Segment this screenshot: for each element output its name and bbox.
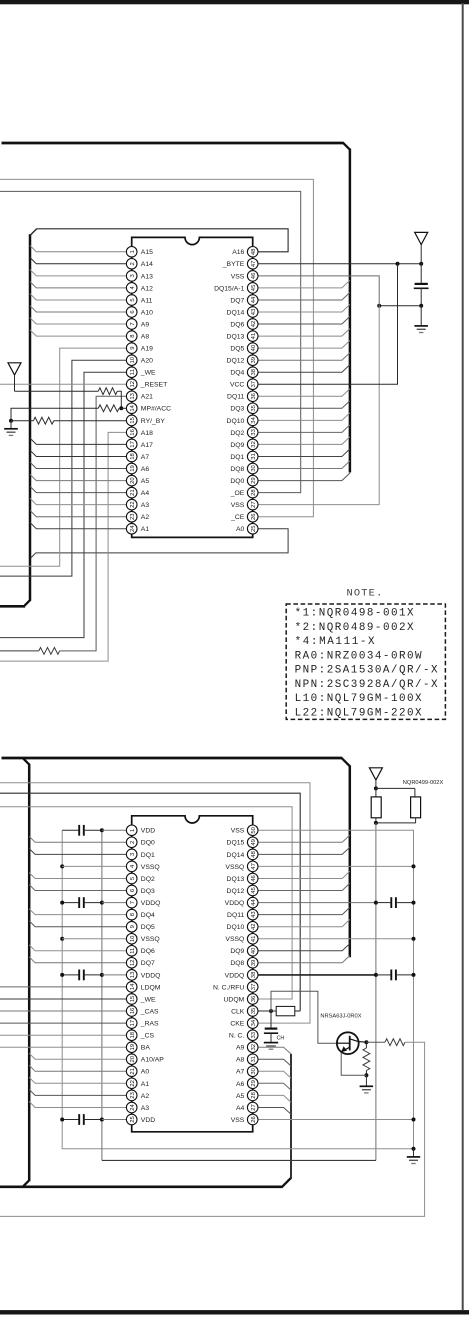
- svg-text:30: 30: [251, 465, 257, 472]
- svg-text:VSSQ: VSSQ: [225, 936, 244, 943]
- svg-text:A12: A12: [141, 285, 153, 292]
- svg-text:DQ15/A-1: DQ15/A-1: [214, 285, 244, 292]
- svg-text:1: 1: [130, 829, 136, 832]
- svg-text:DQ12: DQ12: [227, 358, 245, 365]
- svg-text:34: 34: [251, 416, 257, 423]
- svg-text:A4: A4: [141, 490, 150, 497]
- svg-text:2: 2: [130, 262, 136, 265]
- svg-text:DQ13: DQ13: [227, 876, 245, 883]
- svg-text:A18: A18: [141, 430, 153, 437]
- svg-text:A5: A5: [141, 478, 150, 485]
- svg-text:15: 15: [130, 416, 136, 423]
- svg-text:DQ9: DQ9: [230, 442, 244, 449]
- svg-text:VSS: VSS: [231, 502, 245, 509]
- svg-text:A3: A3: [141, 1105, 150, 1112]
- svg-text:VSSQ: VSSQ: [141, 864, 160, 871]
- svg-text:A11: A11: [141, 297, 153, 304]
- svg-text:A15: A15: [141, 249, 153, 256]
- svg-text:33: 33: [251, 1031, 257, 1038]
- svg-text:RY/_BY: RY/_BY: [141, 418, 166, 425]
- svg-text:DQ9: DQ9: [230, 948, 244, 955]
- svg-text:42: 42: [251, 321, 257, 328]
- svg-text:A20: A20: [141, 358, 153, 365]
- svg-text:48: 48: [251, 850, 257, 857]
- svg-text:*1:NQR0498-001X: *1:NQR0498-001X: [295, 608, 414, 620]
- svg-text:NRSA63J-0R0X: NRSA63J-0R0X: [320, 1014, 361, 1020]
- svg-text:DQ4: DQ4: [141, 912, 155, 919]
- svg-text:16: 16: [130, 1007, 136, 1014]
- svg-text:24: 24: [130, 525, 136, 532]
- svg-text:49: 49: [251, 839, 257, 846]
- svg-text:A8: A8: [141, 334, 150, 341]
- svg-text:A1: A1: [141, 526, 150, 533]
- svg-text:DQ12: DQ12: [227, 888, 245, 895]
- svg-text:43: 43: [251, 308, 257, 315]
- svg-text:21: 21: [130, 489, 136, 496]
- svg-text:37: 37: [251, 381, 257, 388]
- svg-text:31: 31: [251, 1056, 257, 1063]
- svg-text:45: 45: [251, 887, 257, 894]
- svg-text:14: 14: [130, 404, 136, 411]
- svg-text:_WE: _WE: [140, 996, 156, 1003]
- svg-text:VSS: VSS: [231, 1117, 245, 1124]
- svg-text:42: 42: [251, 923, 257, 930]
- svg-text:45: 45: [251, 284, 257, 291]
- svg-text:46: 46: [251, 875, 257, 882]
- svg-text:39: 39: [251, 357, 257, 364]
- svg-text:DQ5: DQ5: [230, 346, 244, 353]
- svg-text:DQ15: DQ15: [227, 840, 245, 847]
- svg-text:VDDQ: VDDQ: [141, 972, 161, 979]
- svg-text:36: 36: [251, 392, 257, 399]
- svg-text:DQ8: DQ8: [230, 466, 244, 473]
- svg-text:_RESET: _RESET: [140, 382, 167, 389]
- svg-text:_BYTE: _BYTE: [222, 261, 245, 268]
- svg-text:*2:NQR0489-002X: *2:NQR0489-002X: [295, 622, 414, 634]
- svg-text:12: 12: [130, 381, 136, 388]
- svg-text:VDD: VDD: [141, 828, 155, 835]
- svg-text:50: 50: [251, 826, 257, 833]
- svg-text:VSS: VSS: [231, 273, 245, 280]
- svg-text:DQ10: DQ10: [227, 924, 245, 931]
- svg-text:29: 29: [251, 477, 257, 484]
- svg-text:DQ5: DQ5: [141, 924, 155, 931]
- svg-text:A17: A17: [141, 442, 153, 449]
- svg-text:DQ14: DQ14: [227, 852, 245, 859]
- svg-text:16: 16: [130, 428, 136, 435]
- svg-text:VSS: VSS: [231, 828, 245, 835]
- svg-text:10: 10: [130, 935, 136, 942]
- svg-text:37: 37: [251, 984, 257, 991]
- svg-text:25: 25: [251, 525, 257, 532]
- svg-text:23: 23: [130, 1091, 136, 1098]
- svg-text:19: 19: [130, 1044, 136, 1051]
- svg-text:31: 31: [251, 453, 257, 460]
- svg-text:34: 34: [251, 1019, 257, 1026]
- svg-text:DQ7: DQ7: [141, 960, 155, 967]
- svg-text:32: 32: [251, 1044, 257, 1051]
- svg-text:DQ10: DQ10: [227, 418, 245, 425]
- svg-text:A6: A6: [141, 466, 150, 473]
- svg-text:_CE: _CE: [230, 514, 245, 521]
- svg-text:41: 41: [251, 333, 257, 340]
- svg-text:11: 11: [130, 948, 136, 954]
- svg-text:20: 20: [130, 477, 136, 484]
- svg-text:28: 28: [251, 1091, 257, 1098]
- svg-text:40: 40: [251, 947, 257, 954]
- svg-text:A2: A2: [141, 514, 150, 521]
- svg-text:NOTE.: NOTE.: [347, 588, 384, 600]
- svg-text:A21: A21: [141, 394, 153, 401]
- svg-text:CKE: CKE: [230, 1021, 244, 1028]
- svg-text:N. C./RFU: N. C./RFU: [213, 984, 244, 991]
- svg-text:_OE: _OE: [230, 490, 245, 497]
- svg-text:28: 28: [251, 489, 257, 496]
- svg-text:47: 47: [251, 261, 257, 268]
- svg-text:PNP:2SA1530A/QR/-X: PNP:2SA1530A/QR/-X: [295, 665, 438, 677]
- svg-text:17: 17: [130, 441, 136, 448]
- svg-text:39: 39: [251, 960, 257, 967]
- svg-text:A19: A19: [141, 346, 153, 353]
- svg-text:26: 26: [251, 1116, 257, 1123]
- svg-text:A10/AP: A10/AP: [141, 1057, 165, 1064]
- svg-text:DQ11: DQ11: [227, 912, 244, 919]
- svg-text:A10: A10: [141, 309, 153, 316]
- svg-text:_RAS: _RAS: [140, 1021, 159, 1028]
- svg-text:17: 17: [130, 1020, 136, 1027]
- svg-text:VSSQ: VSSQ: [225, 864, 244, 871]
- svg-text:20: 20: [130, 1055, 136, 1062]
- svg-text:DQ14: DQ14: [227, 309, 245, 316]
- svg-text:*4:MA111-X: *4:MA111-X: [295, 636, 375, 648]
- svg-text:44: 44: [251, 296, 257, 303]
- svg-text:22: 22: [130, 1080, 136, 1087]
- svg-text:A9: A9: [236, 1045, 245, 1052]
- svg-text:A2: A2: [141, 1093, 150, 1100]
- svg-text:18: 18: [130, 453, 136, 460]
- svg-text:7: 7: [130, 901, 136, 904]
- svg-text:NQR0499-002X: NQR0499-002X: [403, 780, 444, 786]
- svg-text:36: 36: [251, 995, 257, 1002]
- svg-text:A0: A0: [236, 526, 245, 533]
- svg-text:A13: A13: [141, 273, 153, 280]
- svg-text:26: 26: [251, 513, 257, 520]
- svg-text:33: 33: [251, 428, 257, 435]
- svg-text:UDQM: UDQM: [224, 996, 245, 1003]
- svg-text:29: 29: [251, 1080, 257, 1087]
- svg-text:DQ8: DQ8: [230, 960, 244, 967]
- svg-text:27: 27: [251, 1104, 257, 1111]
- svg-text:A6: A6: [236, 1081, 245, 1088]
- svg-text:19: 19: [130, 465, 136, 472]
- svg-text:_WE: _WE: [140, 370, 156, 377]
- svg-text:13: 13: [130, 971, 136, 978]
- svg-text:10: 10: [130, 356, 136, 363]
- svg-text:7: 7: [130, 322, 136, 325]
- svg-text:DQ6: DQ6: [141, 948, 155, 955]
- svg-text:VDDQ: VDDQ: [225, 972, 245, 979]
- svg-text:VDD: VDD: [141, 1117, 155, 1124]
- svg-text:18: 18: [130, 1031, 136, 1038]
- svg-text:DQ7: DQ7: [230, 297, 244, 304]
- svg-text:46: 46: [251, 272, 257, 279]
- svg-text:DQ6: DQ6: [230, 321, 244, 328]
- svg-text:30: 30: [251, 1067, 257, 1074]
- svg-text:35: 35: [251, 404, 257, 411]
- svg-text:LDQM: LDQM: [141, 984, 161, 991]
- svg-text:38: 38: [251, 368, 257, 375]
- svg-text:25: 25: [130, 1116, 136, 1123]
- svg-text:A0: A0: [141, 1069, 150, 1076]
- svg-text:A1: A1: [141, 1081, 150, 1088]
- svg-text:23: 23: [130, 513, 136, 520]
- svg-text:12: 12: [130, 960, 136, 967]
- svg-text:DQ3: DQ3: [141, 888, 155, 895]
- svg-text:VDDQ: VDDQ: [225, 900, 245, 907]
- svg-text:RA0:NRZ0034-0R0W: RA0:NRZ0034-0R0W: [295, 650, 422, 662]
- svg-text:DQ1: DQ1: [230, 454, 244, 461]
- svg-text:47: 47: [251, 863, 257, 870]
- svg-text:DQ11: DQ11: [227, 394, 244, 401]
- svg-text:DQ1: DQ1: [141, 852, 155, 859]
- svg-text:A9: A9: [141, 321, 150, 328]
- svg-text:_CS: _CS: [140, 1033, 155, 1040]
- svg-text:MP#/ACC: MP#/ACC: [141, 406, 171, 413]
- svg-text:BA: BA: [141, 1045, 151, 1052]
- svg-text:21: 21: [130, 1068, 136, 1075]
- svg-text:13: 13: [130, 392, 136, 399]
- svg-text:N. C.: N. C.: [229, 1033, 245, 1040]
- svg-text:DQ0: DQ0: [141, 840, 155, 847]
- svg-text:48: 48: [251, 248, 257, 255]
- svg-text:40: 40: [251, 344, 257, 351]
- svg-text:11: 11: [130, 369, 136, 375]
- svg-text:41: 41: [251, 936, 257, 943]
- svg-text:A5: A5: [236, 1093, 245, 1100]
- svg-text:DQ0: DQ0: [230, 478, 244, 485]
- svg-text:2: 2: [130, 841, 136, 844]
- svg-text:DQ2: DQ2: [141, 876, 155, 883]
- svg-text:38: 38: [251, 971, 257, 978]
- svg-text:DQ13: DQ13: [227, 334, 245, 341]
- svg-text:VCC: VCC: [230, 382, 244, 389]
- svg-text:A16: A16: [232, 249, 244, 256]
- svg-text:A7: A7: [236, 1069, 245, 1076]
- svg-text:VDDQ: VDDQ: [141, 900, 161, 907]
- svg-text:CLK: CLK: [231, 1008, 245, 1015]
- svg-text:1: 1: [130, 250, 136, 253]
- svg-text:A4: A4: [236, 1105, 245, 1112]
- svg-text:A14: A14: [141, 261, 153, 268]
- svg-text:DQ3: DQ3: [230, 406, 244, 413]
- svg-text:_CAS: _CAS: [140, 1008, 159, 1015]
- svg-text:A8: A8: [236, 1057, 245, 1064]
- svg-text:32: 32: [251, 441, 257, 448]
- svg-text:VSSQ: VSSQ: [141, 936, 160, 943]
- svg-text:24: 24: [130, 1104, 136, 1111]
- svg-text:22: 22: [130, 501, 136, 508]
- svg-text:15: 15: [130, 995, 136, 1002]
- svg-text:DQ2: DQ2: [230, 430, 244, 437]
- svg-text:9: 9: [130, 346, 136, 349]
- svg-text:44: 44: [251, 899, 257, 906]
- svg-text:CH: CH: [277, 1036, 285, 1042]
- svg-text:A3: A3: [141, 502, 150, 509]
- svg-text:L22:NQL79GM-220X: L22:NQL79GM-220X: [295, 707, 422, 719]
- svg-text:9: 9: [130, 925, 136, 928]
- svg-text:DQ4: DQ4: [230, 370, 244, 377]
- svg-text:35: 35: [251, 1007, 257, 1014]
- svg-text:A7: A7: [141, 454, 150, 461]
- svg-text:NPN:2SC3928A/QR/-X: NPN:2SC3928A/QR/-X: [295, 679, 438, 691]
- svg-text:27: 27: [251, 501, 257, 508]
- svg-text:L10:NQL79GM-100X: L10:NQL79GM-100X: [295, 693, 422, 705]
- svg-text:14: 14: [130, 983, 136, 990]
- svg-text:43: 43: [251, 911, 257, 918]
